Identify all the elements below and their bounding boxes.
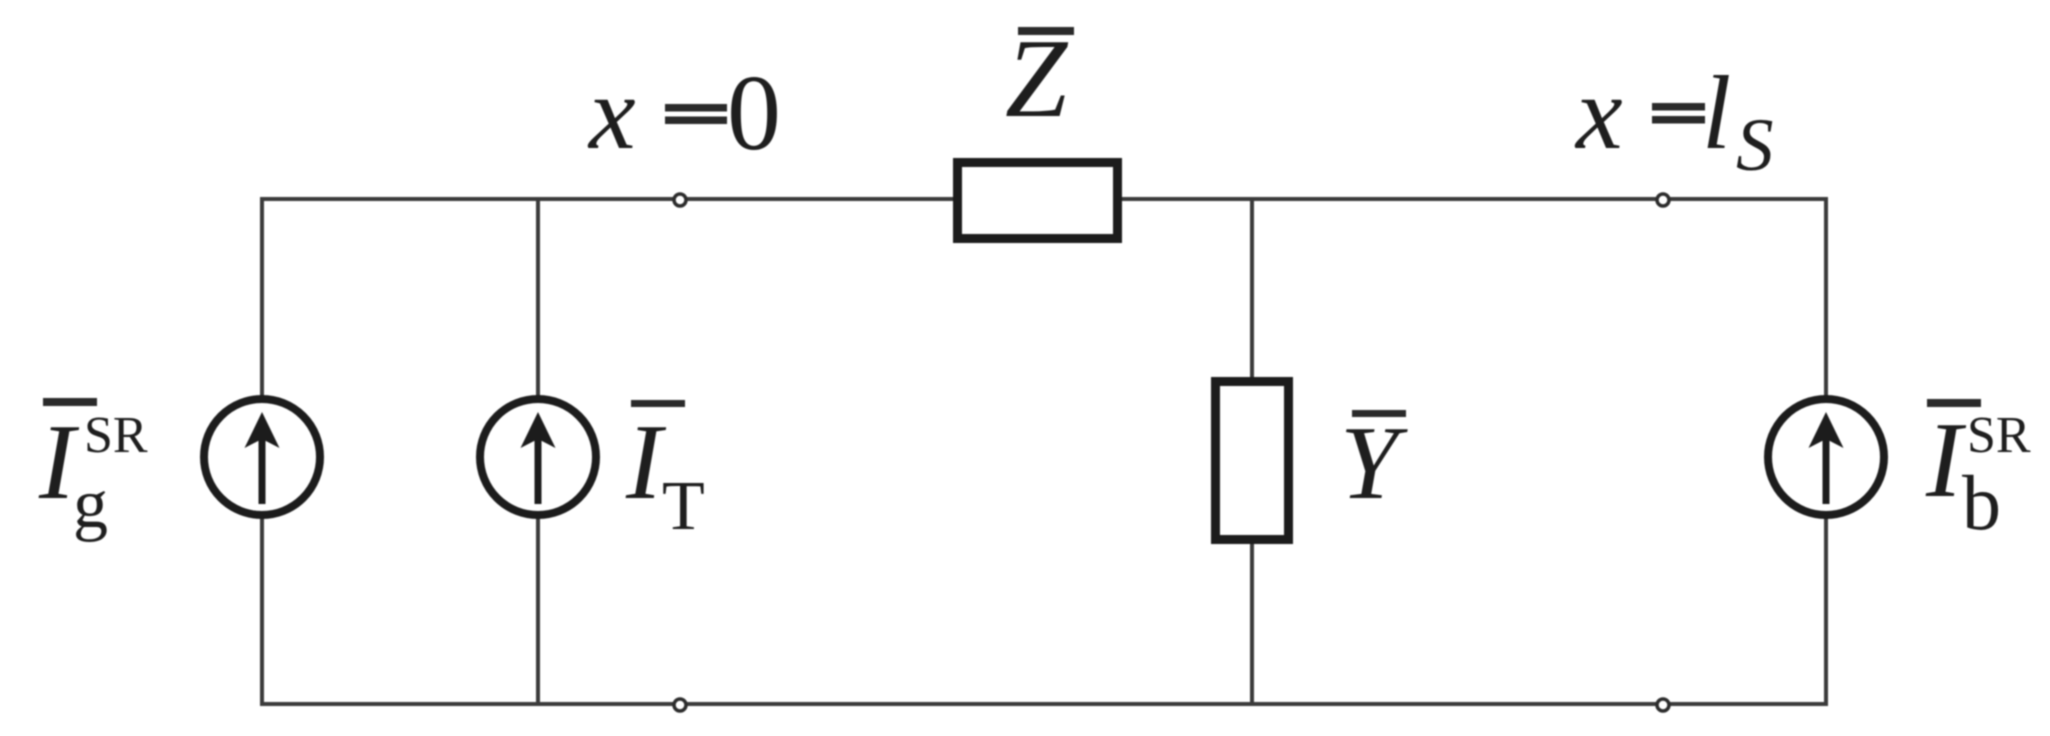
current source Ib circle xyxy=(1768,399,1884,515)
overline of Z xyxy=(1018,27,1074,35)
node terminal bottom left xyxy=(674,699,686,711)
svg-text:Z: Z xyxy=(1005,17,1069,141)
svg-text:SR: SR xyxy=(84,407,148,464)
svg-text:x: x xyxy=(1574,54,1623,171)
svg-text:Y: Y xyxy=(1340,404,1408,521)
current source IT arrow xyxy=(521,412,556,504)
overline of Ib xyxy=(1927,399,1981,407)
wire branch IT vertical xyxy=(536,199,540,704)
overline of Y xyxy=(1352,410,1406,417)
overline of IT xyxy=(631,400,685,407)
svg-text:g: g xyxy=(73,466,108,543)
svg-text:l: l xyxy=(1702,54,1731,171)
current source IT circle xyxy=(480,399,596,515)
svg-text:b: b xyxy=(1962,459,2001,546)
admittance Y1 box xyxy=(1216,382,1289,540)
impedance Z1 box xyxy=(958,163,1118,239)
wire left vertical xyxy=(260,197,264,706)
overline of Ig xyxy=(43,398,97,406)
svg-text:SR: SR xyxy=(1967,407,2031,464)
label x=ls : equals sign xyxy=(1652,103,1705,111)
current source Ig arrow xyxy=(245,412,280,504)
svg-text:0: 0 xyxy=(727,54,781,173)
svg-text:x: x xyxy=(587,54,636,171)
svg-text:I: I xyxy=(625,403,667,522)
wire bottom xyxy=(262,702,1826,706)
svg-text:S: S xyxy=(1736,104,1774,187)
wire right vertical xyxy=(1824,197,1828,706)
node terminal bottom right xyxy=(1657,699,1669,711)
wire branch Y vertical xyxy=(1250,199,1254,704)
current source Ig circle xyxy=(204,399,320,515)
label x=0 : equals sign xyxy=(665,104,727,112)
svg-text:I: I xyxy=(1925,401,1967,520)
current source Ib arrow xyxy=(1809,412,1844,504)
svg-text:T: T xyxy=(662,468,705,545)
wire top xyxy=(262,197,1826,201)
node terminal x=0 top xyxy=(674,194,686,206)
node terminal x=ls top xyxy=(1657,194,1669,206)
